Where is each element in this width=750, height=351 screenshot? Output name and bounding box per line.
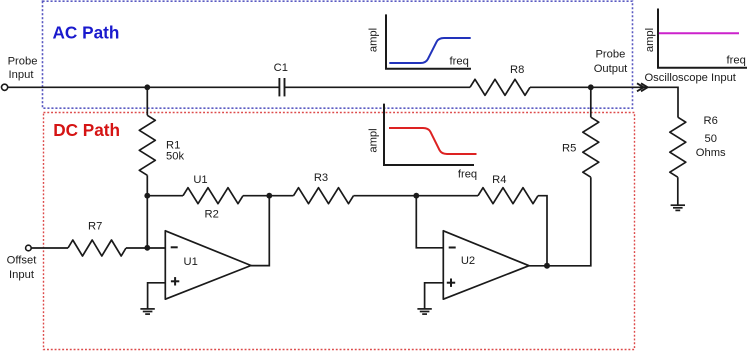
oscilloscope input flat response graph bbox=[644, 9, 747, 68]
wire: node down to U1 inverting input bbox=[146, 196, 148, 248]
U1 minus sign bbox=[171, 246, 178, 248]
wire: R7 to U1 inverting input bbox=[126, 247, 165, 249]
svg-text:C1: C1 bbox=[274, 62, 288, 74]
wire: probe input to C1 bbox=[8, 86, 280, 88]
resistor R2 bbox=[183, 188, 243, 204]
wire: R1 to feedback node bbox=[146, 175, 148, 195]
svg-text:ProbeInput: ProbeInput bbox=[8, 56, 38, 82]
ground (U2) bbox=[417, 309, 431, 314]
ground (R6) bbox=[671, 205, 685, 210]
wire: U1 non-inverting input to ground bbox=[148, 283, 166, 309]
svg-text:ampl: ampl bbox=[368, 128, 380, 152]
wire: R3 to R4 bbox=[354, 195, 479, 197]
node: probe input / R1 junction bbox=[144, 84, 150, 90]
wire: R2 to R3 bbox=[243, 195, 294, 197]
Offset Input terminal bbox=[26, 245, 32, 251]
wire: offset input to R7 bbox=[31, 247, 68, 249]
node: R7 / U1 inverting input junction bbox=[144, 245, 150, 251]
svg-text:ProbeOutput: ProbeOutput bbox=[594, 49, 628, 76]
svg-text:freq: freq bbox=[458, 169, 477, 181]
AC Path region box bbox=[43, 1, 633, 108]
svg-text:R650Ohms: R650Ohms bbox=[696, 115, 726, 159]
node: U2 output junction bbox=[544, 263, 550, 269]
resistor R5 bbox=[583, 117, 599, 177]
svg-text:R7: R7 bbox=[88, 221, 102, 233]
op-amp U1 bbox=[165, 231, 251, 299]
U1 plus sign bbox=[171, 277, 179, 285]
svg-text:DC Path: DC Path bbox=[53, 120, 120, 140]
wire: R4 down to U2 output node bbox=[538, 196, 547, 266]
wire: junction down to U1 output bbox=[251, 196, 269, 266]
connector arrow to oscilloscope bbox=[637, 83, 648, 91]
wire: node down to U2 inverting input bbox=[416, 196, 443, 248]
wire: AC node down to R1 bbox=[146, 87, 148, 115]
DC Path region box bbox=[44, 113, 635, 350]
svg-text:U1: U1 bbox=[184, 256, 198, 268]
svg-text:AC Path: AC Path bbox=[53, 22, 120, 42]
svg-text:R150k: R150k bbox=[166, 140, 184, 163]
ground (U1) bbox=[140, 309, 154, 314]
svg-text:Oscilloscope Input: Oscilloscope Input bbox=[644, 72, 736, 84]
DC path frequency response graph (lowpass) bbox=[368, 104, 478, 181]
svg-text:OffsetInput: OffsetInput bbox=[7, 254, 38, 281]
wire: U2 output to node bbox=[529, 265, 547, 267]
svg-text:R5: R5 bbox=[562, 143, 576, 155]
svg-text:R2: R2 bbox=[205, 209, 219, 221]
wire: probe output node to R5 bbox=[590, 87, 592, 117]
svg-text:R8: R8 bbox=[510, 64, 524, 76]
wire: R8 to R6 via probe output node bbox=[530, 87, 678, 117]
svg-text:ampl: ampl bbox=[644, 28, 656, 52]
resistor R6 bbox=[670, 117, 686, 177]
resistor R4 bbox=[478, 188, 538, 204]
wire: C1 to R8 bbox=[285, 86, 471, 88]
svg-text:freq: freq bbox=[450, 55, 469, 67]
wire: R6 to ground bbox=[677, 177, 679, 205]
resistor R1 bbox=[139, 115, 155, 175]
Probe Input terminal bbox=[2, 84, 8, 90]
wire: R5 bottom to U2 output node bbox=[547, 177, 591, 266]
svg-text:U2: U2 bbox=[461, 255, 475, 267]
svg-text:R3: R3 bbox=[314, 172, 328, 184]
resistor R7 bbox=[68, 240, 126, 256]
U2 plus sign bbox=[447, 279, 455, 287]
node: probe output / R5 junction bbox=[588, 84, 594, 90]
resistor R8 bbox=[470, 79, 530, 95]
svg-text:freq: freq bbox=[727, 54, 746, 66]
capacitor C1 bbox=[279, 78, 284, 96]
node: R2 / R3 / U1 output junction bbox=[266, 193, 272, 199]
svg-text:ampl: ampl bbox=[368, 28, 380, 52]
wire: node to R2 bbox=[147, 195, 183, 197]
U2 minus sign bbox=[449, 247, 456, 249]
op-amp U2 bbox=[443, 231, 529, 299]
resistor R3 bbox=[294, 188, 354, 204]
svg-text:R4: R4 bbox=[492, 174, 506, 186]
node: R1 / R2 / U1 input junction bbox=[144, 193, 150, 199]
svg-text:U1: U1 bbox=[193, 174, 207, 186]
node: R3 / R4 / U2 input junction bbox=[413, 193, 419, 199]
AC path frequency response graph (highpass) bbox=[368, 14, 472, 68]
wire: U2 non-inverting input to ground bbox=[425, 283, 444, 309]
